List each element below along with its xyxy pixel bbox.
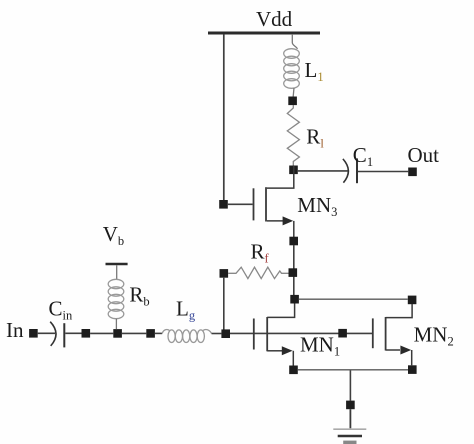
resistor Rf xyxy=(228,267,288,278)
Vb terminal bar xyxy=(106,263,128,265)
wire xyxy=(349,409,351,428)
wire bottom xyxy=(298,369,408,371)
wire xyxy=(223,34,225,200)
wire xyxy=(212,333,222,335)
wire xyxy=(228,203,253,205)
In terminal xyxy=(29,329,38,338)
wire xyxy=(90,332,113,334)
resistor Rb (coil) xyxy=(108,279,124,318)
node xyxy=(288,97,297,106)
wire xyxy=(223,278,225,330)
node Rf left xyxy=(220,269,229,278)
wire xyxy=(358,171,408,173)
capacitor Cin xyxy=(50,322,64,348)
node xyxy=(82,329,91,338)
node MN1 source xyxy=(289,366,298,375)
wire ground drop xyxy=(349,371,351,401)
node gate junction xyxy=(338,329,347,338)
inductor Lg xyxy=(162,329,211,342)
wire xyxy=(299,298,408,300)
wire xyxy=(298,170,348,172)
inductor L1 xyxy=(284,49,300,89)
wire xyxy=(116,265,118,279)
transistor MN3 xyxy=(254,166,294,237)
node xyxy=(221,329,230,338)
transistor MN2 xyxy=(373,304,412,365)
wire xyxy=(122,332,146,334)
wire xyxy=(115,319,117,329)
svg-text:Out: Out xyxy=(408,143,440,167)
node xyxy=(146,329,155,338)
Out terminal xyxy=(408,168,417,177)
transistor MN1 xyxy=(254,304,295,366)
node MN3 gate xyxy=(219,200,228,209)
wire xyxy=(155,332,162,334)
svg-text:Vdd: Vdd xyxy=(256,7,293,31)
wire xyxy=(38,332,55,334)
node Rb bottom xyxy=(113,329,122,338)
node xyxy=(289,166,298,175)
node MN2 drain xyxy=(408,296,417,305)
node Rf right xyxy=(289,268,298,277)
node xyxy=(290,295,299,304)
node xyxy=(289,237,298,246)
wire xyxy=(65,332,81,334)
capacitor C1 xyxy=(343,158,357,183)
resistor Rl xyxy=(287,105,299,166)
node xyxy=(346,401,355,410)
wire xyxy=(292,88,295,97)
svg-text:In: In xyxy=(6,318,24,342)
node MN2 source xyxy=(408,365,417,374)
wire xyxy=(293,245,295,296)
wire xyxy=(292,34,297,49)
Vdd rail xyxy=(208,32,320,35)
ground xyxy=(333,429,366,442)
gate wire MN1-MN2 xyxy=(228,332,372,334)
